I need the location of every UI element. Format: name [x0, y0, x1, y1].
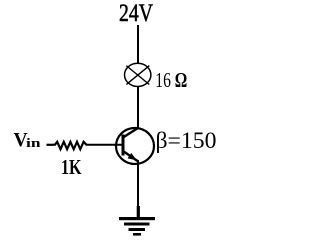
transistor Q1 circle [116, 128, 154, 164]
svg-text:1K: 1K [61, 155, 82, 179]
wire lamp to transistor collector [137, 86, 139, 129]
wire emitter to ground [137, 160, 139, 218]
svg-text:β=150: β=150 [156, 128, 217, 154]
lamp L1 X stroke 1 [126, 66, 149, 85]
ground bar 3 [129, 228, 146, 231]
ground bar 2 [124, 223, 150, 226]
transistor Q1 base bar [122, 135, 125, 156]
ground bar 4 [133, 233, 141, 236]
svg-text:in: in [26, 136, 41, 150]
resistor R1 zigzag [55, 142, 88, 149]
lamp L1 X stroke 2 [126, 66, 149, 85]
svg-text:24V: 24V [119, 0, 153, 27]
transistor Q1 emitter diagonal [123, 151, 138, 161]
transistor Q1 collector diagonal [123, 128, 138, 138]
svg-text:16 Ω: 16 Ω [155, 68, 187, 92]
lamp L1 (circle) [125, 63, 151, 86]
ground bar 1 [119, 217, 155, 220]
wire supply to lamp [137, 25, 139, 64]
wire stub above ground [137, 206, 140, 218]
transistor Q1 emitter arrow [128, 153, 137, 160]
wire resistor to base [87, 144, 123, 146]
resistor R1 lead left [47, 144, 55, 146]
